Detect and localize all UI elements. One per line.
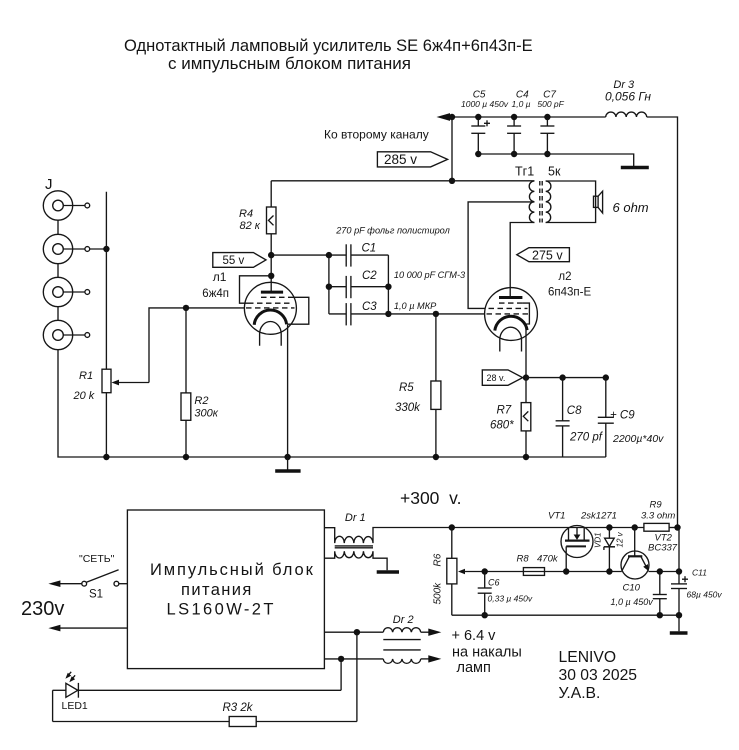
resistor R3 [53, 717, 357, 727]
wire R3 feed vertical [356, 632, 358, 721]
L1 heater [260, 322, 282, 346]
wire heater lower out [421, 658, 429, 660]
node C5 top [475, 114, 481, 120]
svg-text:6ж4п: 6ж4п [202, 288, 229, 300]
node R7 bottom [523, 454, 529, 460]
svg-text:300к: 300к [194, 408, 218, 420]
inductor Dr1 bottom winding [324, 551, 387, 570]
jack J4 [43, 320, 89, 349]
LED LED1 [53, 683, 342, 698]
svg-text:R3 2k: R3 2k [223, 702, 254, 714]
wire L2 g3 to cathode loop [522, 303, 529, 324]
ground top [621, 166, 649, 170]
inductor Dr1 top winding [324, 528, 644, 544]
wire grid line to L2 [388, 313, 485, 315]
capacitor C10 [653, 572, 667, 616]
svg-text:питания: питания [181, 581, 253, 599]
svg-text:3.3 ohm: 3.3 ohm [641, 511, 675, 522]
svg-text:У.А.В.: У.А.В. [559, 685, 601, 702]
node L2 cathode [523, 374, 529, 380]
wire primary bottom to anode [510, 223, 534, 298]
wire top B+ rail [449, 116, 606, 118]
wire caps right rail [387, 255, 389, 314]
tube L2 envelope [485, 288, 538, 341]
L1 grid g2 [248, 302, 292, 304]
wire jack ground to bus [58, 350, 606, 457]
wire jack2 pin to input [90, 248, 107, 250]
svg-text:230v: 230v [21, 598, 64, 620]
transistor VT1 [561, 526, 593, 572]
wire neutral line [60, 627, 127, 629]
wire gate line [464, 571, 622, 573]
node C7 bottom [544, 151, 550, 157]
svg-text:VT1: VT1 [548, 511, 565, 522]
svg-text:68µ 450v: 68µ 450v [687, 590, 723, 600]
resistor R9 [644, 523, 669, 531]
inductor Dr2 upper [383, 628, 420, 632]
svg-text:6 ohm: 6 ohm [613, 200, 649, 215]
svg-text:"СЕТЬ": "СЕТЬ" [79, 553, 115, 565]
LED1 emission arrows [65, 672, 75, 682]
node C5 bottom [475, 151, 481, 157]
svg-text:20 k: 20 k [73, 390, 95, 402]
node caps left mid [326, 284, 332, 290]
svg-text:R4: R4 [239, 208, 253, 220]
svg-text:1000 µ 450v: 1000 µ 450v [461, 99, 509, 109]
wire secondary loop [546, 181, 596, 223]
svg-text:30 03 2025: 30 03 2025 [559, 667, 638, 684]
capacitor C3 [329, 303, 389, 325]
svg-text:12 v: 12 v [616, 531, 625, 547]
wire mains line [60, 583, 82, 585]
svg-text:л1: л1 [213, 270, 227, 284]
svg-text:Тг1: Тг1 [515, 165, 534, 179]
wire caps bottom rail [478, 154, 633, 166]
wire bottom rail [452, 614, 679, 616]
node C10 top [657, 568, 663, 574]
transformer Tg1 primary [529, 181, 534, 223]
node VT1 gate [563, 568, 569, 574]
svg-text:270 pf: 270 pf [569, 432, 604, 444]
callout 275v [517, 248, 570, 263]
wire jack chain [57, 220, 59, 320]
svg-text:R7: R7 [497, 405, 512, 417]
inductor Dr2 lower [383, 659, 420, 663]
svg-text:BC337: BC337 [648, 543, 678, 554]
svg-text:285 v: 285 v [384, 152, 417, 167]
node C8 top [559, 374, 565, 380]
svg-text:Dr 2: Dr 2 [393, 614, 414, 626]
node R5 tap [433, 311, 439, 317]
transformer Tg1 secondary [546, 181, 551, 223]
svg-text:C8: C8 [567, 405, 582, 417]
node jack2 input junction [103, 246, 109, 252]
svg-text:LED1: LED1 [62, 700, 88, 712]
svg-text:500k: 500k [433, 582, 444, 605]
node L1 g2 tap [268, 273, 274, 279]
svg-text:2sk1271: 2sk1271 [580, 511, 617, 522]
svg-text:LENIVO: LENIVO [559, 649, 617, 666]
wire L1 g2 loop [240, 276, 272, 303]
svg-text:R9: R9 [650, 500, 663, 511]
wire L1 cathode to ground [287, 324, 289, 457]
wire R9 right [669, 527, 677, 529]
svg-text:+300 v.: +300 v. [400, 488, 461, 508]
arrow neutral line [48, 625, 60, 632]
tube L1 envelope [244, 282, 296, 334]
capacitor C1 [329, 244, 389, 266]
node caps left top [326, 252, 332, 258]
wire tee vertical [451, 117, 453, 181]
L2 grid g1 [487, 313, 530, 315]
zener VD1 [604, 528, 615, 572]
node C11 top [676, 568, 682, 574]
svg-text:л2: л2 [558, 271, 571, 283]
node C7 top [544, 114, 550, 120]
svg-text:1,0 µ: 1,0 µ [512, 99, 531, 109]
wire cathode node [526, 377, 606, 379]
svg-text:C6: C6 [488, 578, 500, 588]
svg-text:275 v: 275 v [532, 248, 563, 262]
node tee top [449, 114, 455, 120]
svg-text:R6: R6 [433, 553, 444, 566]
wire anode node to caps [271, 254, 329, 256]
callout 285v [377, 152, 447, 167]
node caps right mid [385, 284, 391, 290]
svg-text:с импульсным блоком питания: с импульсным блоком питания [168, 54, 411, 73]
node R1 bottom [103, 454, 109, 460]
wire L1 anode lead [270, 255, 272, 292]
node VD1 bottom [606, 568, 612, 574]
wire heater upper out [421, 631, 429, 633]
node tee bottom [449, 178, 455, 184]
svg-text:0,33 µ 450v: 0,33 µ 450v [488, 594, 533, 604]
svg-text:C10: C10 [623, 583, 641, 594]
ground main [275, 457, 300, 471]
inductor Dr2 core [383, 640, 420, 650]
svg-text:330k: 330k [395, 402, 421, 414]
svg-text:C2: C2 [362, 270, 377, 282]
svg-text:Dr 1: Dr 1 [345, 512, 366, 524]
svg-text:10 000 pF СГМ-3: 10 000 pF СГМ-3 [394, 270, 466, 280]
svg-text:LS160W-2T: LS160W-2T [167, 601, 276, 619]
wire UL tap [468, 202, 534, 309]
node anode supply [268, 252, 274, 258]
wire heater lower [324, 658, 383, 660]
node C4 top [511, 114, 517, 120]
resistor R7 [521, 378, 531, 457]
wire caps left rail [328, 255, 330, 314]
ground Dr1 [377, 570, 399, 574]
svg-text:6п43п-Е: 6п43п-Е [548, 287, 591, 299]
svg-text:C3: C3 [362, 301, 377, 313]
jack J3 [43, 277, 89, 306]
svg-text:ламп: ламп [457, 660, 491, 676]
svg-text:R2: R2 [194, 395, 208, 407]
ground C11 [670, 631, 688, 635]
svg-text:28 v.: 28 v. [487, 373, 506, 383]
svg-text:1,0 µ МКР: 1,0 µ МКР [394, 301, 437, 311]
L2 grid g2 [489, 307, 528, 309]
node heater upper tap [354, 629, 360, 635]
node R2 bottom [183, 454, 189, 460]
capacitor C11 [671, 528, 688, 632]
wire LED down [52, 690, 54, 721]
speaker [594, 191, 603, 213]
wire L1 g3 to cathode loop [288, 297, 309, 324]
inductor Dr3 [606, 112, 647, 117]
node heater lower tap [338, 656, 344, 662]
svg-text:R1: R1 [79, 370, 93, 382]
resistor R5 [431, 314, 441, 457]
capacitor C9 [598, 378, 614, 457]
svg-text:680*: 680* [490, 420, 514, 432]
wire heater upper [324, 631, 383, 633]
L1 grid g1 [246, 307, 295, 309]
resistor R2 [181, 308, 191, 457]
wire emitter line [649, 571, 680, 573]
wire L2 cathode lead [525, 324, 527, 378]
resistor R8 [523, 568, 544, 576]
wire top rail right [647, 117, 678, 528]
capacitor C4 [507, 117, 521, 154]
node caps right bottom [385, 311, 391, 317]
node cathode ground junction [284, 454, 290, 460]
svg-text:+ 6.4 v: + 6.4 v [452, 628, 497, 644]
capacitor C7 [540, 117, 554, 154]
svg-text:C11: C11 [692, 568, 707, 578]
capacitor C5 [471, 117, 490, 154]
wire 285v rail [271, 180, 534, 182]
svg-text:J: J [45, 176, 53, 193]
node C6 top [482, 568, 488, 574]
L1 grid g3 [261, 296, 289, 298]
potentiometer R6 [447, 528, 465, 616]
capacitor C2 [329, 276, 389, 298]
svg-text:2200µ*40v: 2200µ*40v [612, 433, 664, 445]
transformer Tg1 core [540, 181, 542, 223]
svg-text:на накалы: на накалы [452, 645, 522, 661]
svg-text:55 v: 55 v [223, 255, 245, 267]
svg-text:5к: 5к [548, 165, 561, 179]
arrow to second channel [437, 113, 451, 121]
transistor VT2 [621, 528, 649, 580]
L2 heater [500, 327, 522, 351]
arrow mains line [48, 580, 60, 587]
svg-text:+ C9: + C9 [610, 410, 635, 422]
wire input vertical [105, 192, 107, 370]
jack J2 [43, 234, 89, 263]
node grid line R2 tap [183, 305, 189, 311]
node C11 bottom [676, 612, 682, 618]
wire LED feed vertical [340, 659, 342, 690]
callout 55v [213, 253, 266, 268]
jack J1 [43, 191, 89, 220]
node R6 top [449, 524, 455, 530]
svg-text:R5: R5 [399, 382, 414, 394]
svg-text:Импульсный блок: Импульсный блок [150, 561, 315, 579]
node C10 bottom [657, 612, 663, 618]
svg-text:470k: 470k [537, 554, 559, 565]
capacitor C8 [556, 378, 570, 457]
svg-text:0,056 Гн: 0,056 Гн [605, 90, 651, 104]
L2 anode [499, 296, 522, 299]
node C4 bottom [511, 151, 517, 157]
svg-text:S1: S1 [89, 589, 103, 601]
svg-text:VD1: VD1 [594, 532, 603, 548]
arrow heater upper [428, 629, 441, 636]
node R5 bottom [433, 454, 439, 460]
arrow heater lower [428, 655, 441, 662]
potentiometer R1 [102, 308, 245, 457]
L2 cathode [495, 316, 527, 330]
L2 grid g3 [499, 302, 522, 304]
svg-text:Однотактный ламповый усилитель: Однотактный ламповый усилитель SE 6ж4п+6… [124, 37, 533, 55]
svg-text:82 к: 82 к [240, 220, 261, 232]
resistor R4 [267, 181, 277, 255]
switch S1 [82, 570, 128, 586]
svg-text:1,0 µ 450v: 1,0 µ 450v [611, 597, 654, 607]
node VT2 collector [632, 524, 638, 530]
inductor Dr1 core [335, 546, 373, 548]
node C9 top [603, 374, 609, 380]
node C6 bottom [482, 612, 488, 618]
L1 anode [261, 291, 283, 294]
svg-text:270 pF фольг полистирол: 270 pF фольг полистирол [335, 226, 450, 236]
svg-text:Ко второму каналу: Ко второму каналу [324, 128, 429, 142]
L1 cathode [254, 310, 286, 325]
svg-text:R8: R8 [517, 554, 530, 565]
svg-text:C1: C1 [362, 243, 377, 255]
svg-text:500 pF: 500 pF [537, 99, 564, 109]
node VD1 top [606, 524, 612, 530]
PSU box LS160W-2T [127, 510, 324, 669]
capacitor C6 [478, 572, 492, 616]
callout 28v [482, 370, 522, 385]
node B+ right corner [674, 524, 680, 530]
